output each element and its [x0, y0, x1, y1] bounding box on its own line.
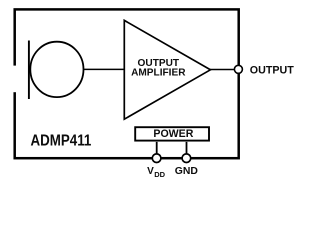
svg-text:OUTPUT: OUTPUT [250, 65, 294, 77]
svg-text:DD: DD [154, 170, 165, 179]
svg-text:GND: GND [175, 166, 199, 177]
svg-text:POWER: POWER [153, 128, 193, 140]
svg-text:ADMP411: ADMP411 [31, 133, 92, 150]
svg-text:AMPLIFIER: AMPLIFIER [131, 67, 186, 78]
svg-text:V: V [147, 166, 154, 177]
